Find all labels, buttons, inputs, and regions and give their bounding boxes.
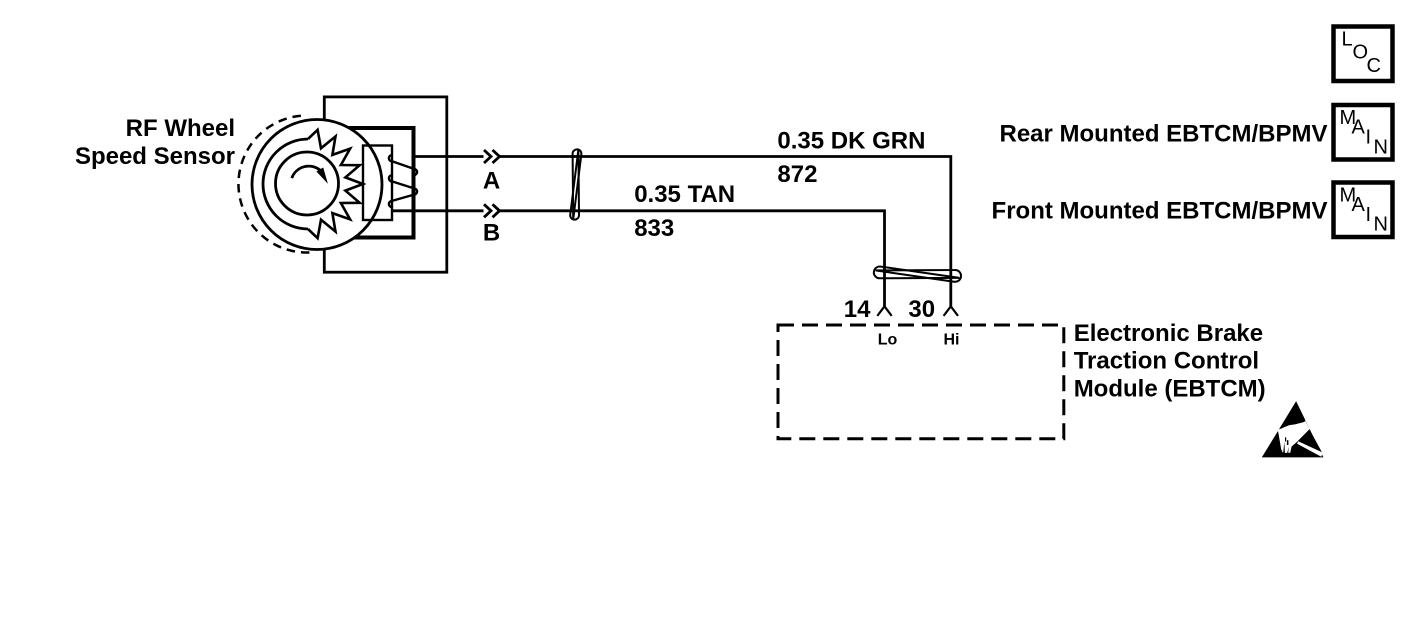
svg-text:Front Mounted EBTCM/BPMV: Front Mounted EBTCM/BPMV	[992, 198, 1328, 225]
svg-text:872: 872	[777, 161, 817, 188]
svg-text:B: B	[483, 220, 500, 247]
svg-text:RF Wheel: RF Wheel	[126, 115, 235, 142]
svg-text:C: C	[1367, 55, 1381, 77]
svg-text:Electronic Brake: Electronic Brake	[1074, 320, 1263, 347]
svg-text:833: 833	[634, 215, 674, 242]
svg-text:Lo: Lo	[878, 332, 898, 349]
svg-text:Speed Sensor: Speed Sensor	[75, 143, 235, 170]
svg-text:A: A	[1352, 117, 1366, 139]
svg-text:0.35 DK GRN: 0.35 DK GRN	[777, 127, 925, 154]
svg-text:14: 14	[844, 296, 871, 323]
svg-text:L: L	[1342, 28, 1353, 50]
svg-text:Rear Mounted EBTCM/BPMV: Rear Mounted EBTCM/BPMV	[999, 121, 1327, 148]
svg-text:A: A	[1352, 194, 1366, 216]
svg-text:30: 30	[908, 296, 935, 323]
svg-text:0.35 TAN: 0.35 TAN	[634, 181, 735, 208]
svg-text:Module (EBTCM): Module (EBTCM)	[1074, 375, 1266, 402]
svg-text:A: A	[483, 168, 500, 195]
svg-text:N: N	[1374, 214, 1388, 236]
svg-text:I: I	[1366, 127, 1372, 149]
svg-text:N: N	[1374, 136, 1388, 158]
svg-text:Traction Control: Traction Control	[1074, 348, 1259, 375]
svg-text:Hi: Hi	[944, 332, 960, 349]
svg-text:I: I	[1366, 204, 1372, 226]
